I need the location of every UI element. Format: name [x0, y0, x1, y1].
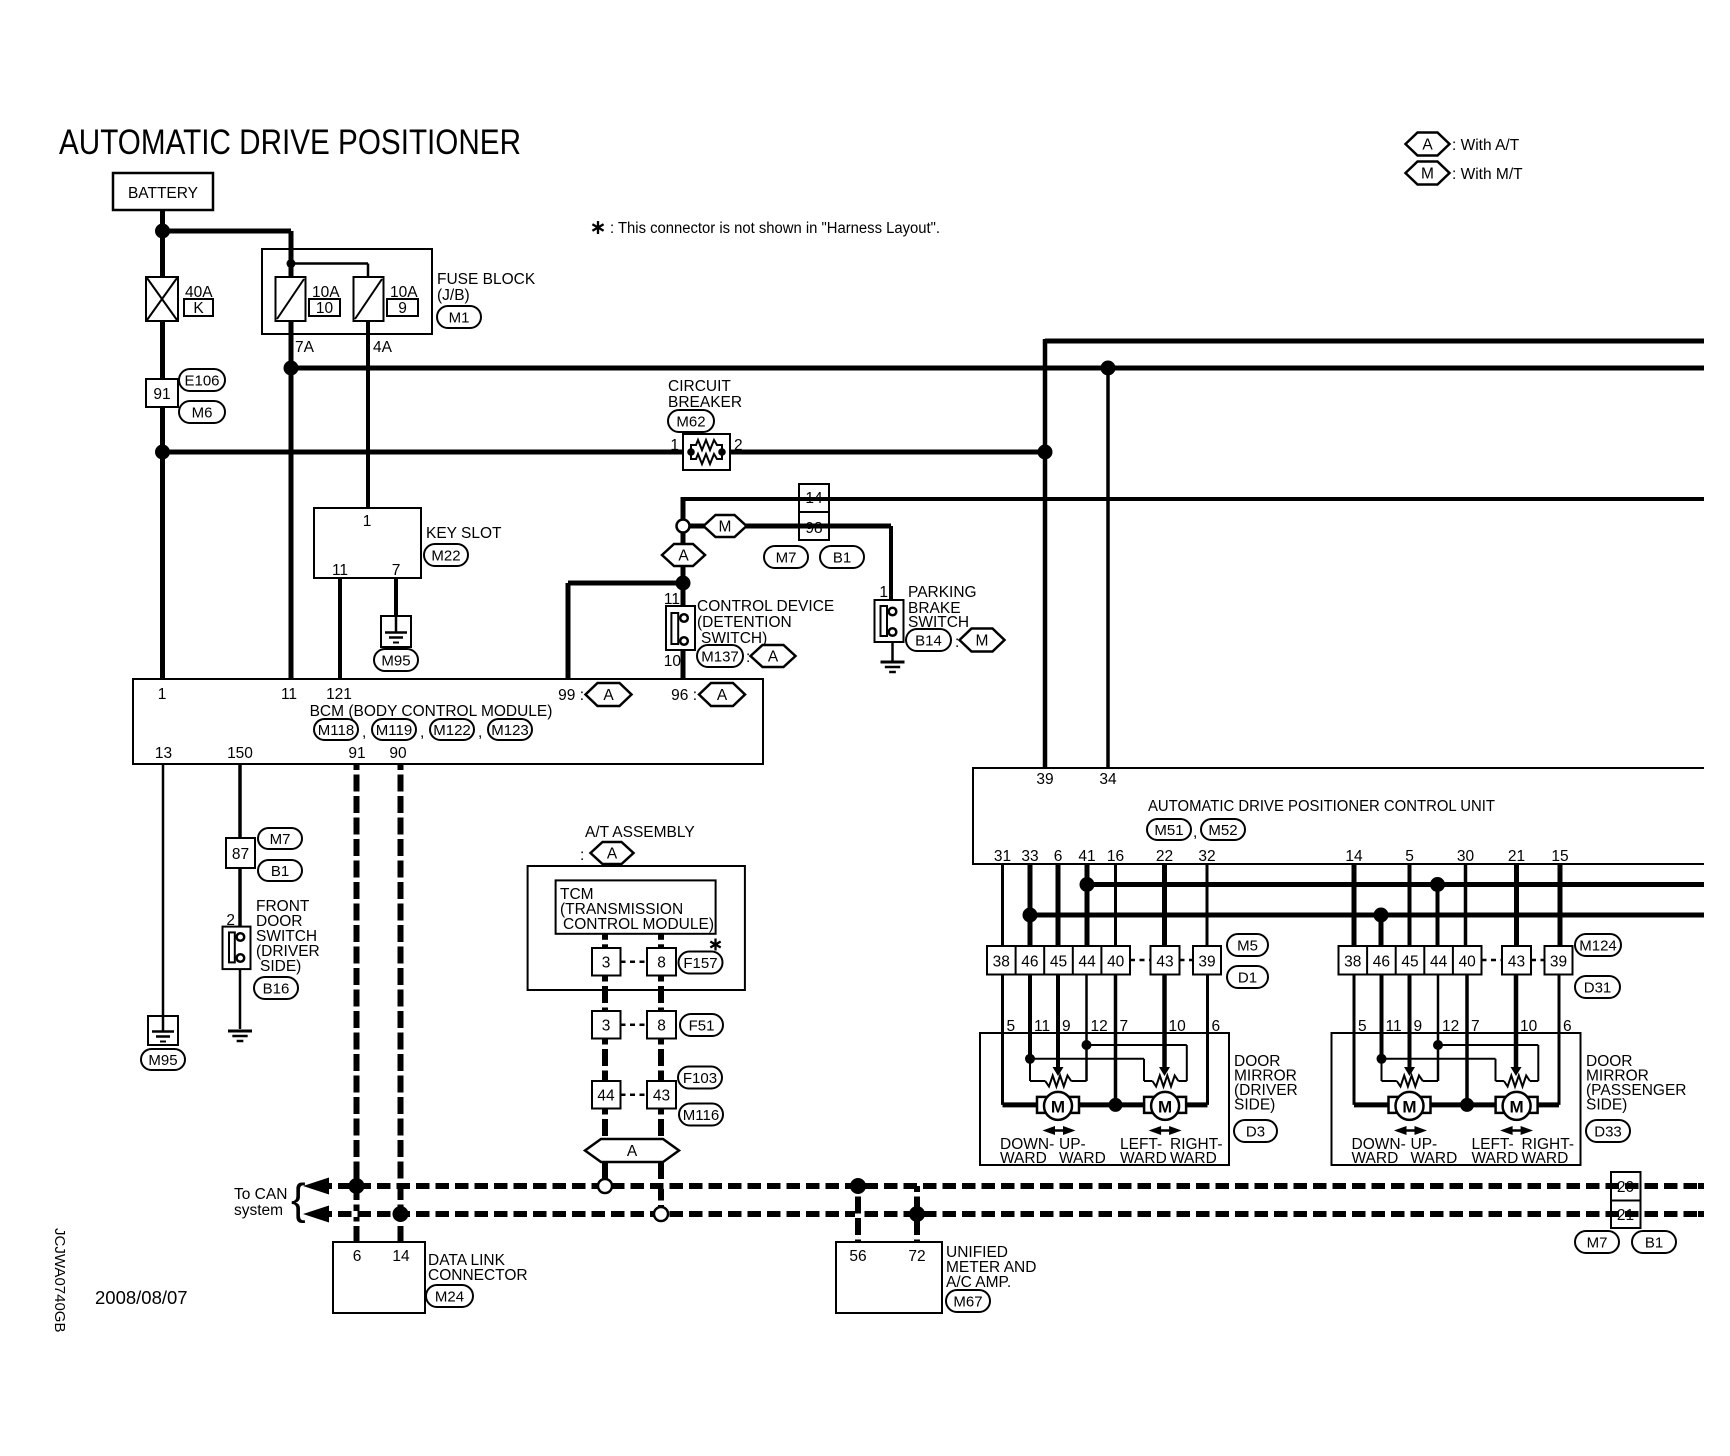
svg-text:21: 21	[1617, 1207, 1634, 1224]
svg-text:11: 11	[281, 686, 297, 703]
svg-text:M95: M95	[148, 1052, 177, 1069]
svg-text:CONNECTOR: CONNECTOR	[428, 1267, 528, 1284]
svg-text:,: ,	[478, 724, 482, 741]
svg-text:14: 14	[392, 1248, 410, 1265]
svg-text:A: A	[1422, 137, 1433, 154]
svg-text:38: 38	[1344, 954, 1361, 971]
svg-text:46: 46	[1373, 954, 1390, 971]
svg-text:M123: M123	[491, 722, 529, 739]
svg-text:41: 41	[1078, 848, 1095, 865]
svg-text:21: 21	[1508, 848, 1525, 865]
svg-text:M: M	[1158, 1097, 1172, 1116]
svg-text:1: 1	[879, 584, 888, 601]
svg-text:10: 10	[664, 653, 682, 670]
svg-text:13: 13	[155, 745, 172, 762]
svg-text:39: 39	[1036, 771, 1053, 788]
svg-text:1: 1	[670, 437, 679, 454]
svg-text:M: M	[976, 633, 989, 650]
svg-text:M: M	[1421, 166, 1434, 183]
svg-text:8: 8	[657, 1018, 666, 1035]
svg-text:7A: 7A	[295, 339, 315, 356]
svg-text:33: 33	[1021, 848, 1038, 865]
svg-text:D3: D3	[1246, 1123, 1265, 1140]
svg-text:40: 40	[1459, 954, 1477, 971]
svg-text:AUTOMATIC DRIVE POSITIONER CON: AUTOMATIC DRIVE POSITIONER CONTROL UNIT	[1148, 798, 1496, 815]
svg-text:M51: M51	[1154, 822, 1183, 839]
svg-text:9: 9	[398, 300, 407, 317]
svg-text:72: 72	[908, 1248, 925, 1265]
svg-text:31: 31	[994, 848, 1011, 865]
svg-text:BCM (BODY CONTROL MODULE): BCM (BODY CONTROL MODULE)	[310, 703, 553, 720]
svg-text:30: 30	[1457, 848, 1475, 865]
svg-text:22: 22	[1156, 848, 1173, 865]
svg-text:,: ,	[420, 724, 424, 741]
svg-text:6: 6	[1054, 848, 1063, 865]
svg-text:WARD: WARD	[1120, 1150, 1167, 1167]
svg-text:14: 14	[805, 490, 823, 507]
svg-text:M1: M1	[449, 309, 470, 326]
svg-text:2: 2	[734, 437, 743, 454]
svg-text:M7: M7	[270, 831, 291, 848]
svg-text:M6: M6	[192, 404, 213, 421]
svg-text:KEY SLOT: KEY SLOT	[426, 525, 502, 542]
svg-text:45: 45	[1050, 954, 1067, 971]
svg-text:M5: M5	[1237, 937, 1258, 954]
svg-text:M: M	[1051, 1097, 1065, 1116]
svg-text:44: 44	[1430, 954, 1448, 971]
svg-text:91: 91	[153, 386, 170, 403]
svg-text:: With A/T: : With A/T	[1452, 137, 1520, 154]
svg-text:B1: B1	[1645, 1234, 1663, 1251]
svg-text:To CAN: To CAN	[234, 1186, 287, 1203]
svg-text:WARD: WARD	[1000, 1150, 1047, 1167]
svg-text:: With M/T: : With M/T	[1452, 166, 1523, 183]
svg-text:1: 1	[158, 686, 167, 703]
svg-text:39: 39	[1198, 954, 1215, 971]
svg-text:,: ,	[362, 724, 366, 741]
svg-text:F103: F103	[683, 1070, 717, 1087]
svg-text:5: 5	[1405, 848, 1414, 865]
svg-text:8: 8	[657, 955, 666, 972]
svg-text:D1: D1	[1238, 969, 1257, 986]
svg-text:91: 91	[348, 745, 365, 762]
svg-text:M24: M24	[435, 1288, 464, 1305]
svg-text:AUTOMATIC DRIVE POSITIONER: AUTOMATIC DRIVE POSITIONER	[59, 122, 521, 162]
svg-text:M: M	[719, 519, 732, 536]
svg-text:38: 38	[993, 954, 1010, 971]
svg-text:FUSE BLOCK: FUSE BLOCK	[437, 271, 536, 288]
svg-text:CONTROL MODULE): CONTROL MODULE)	[563, 916, 714, 933]
svg-text:M116: M116	[683, 1107, 719, 1124]
svg-text:B14: B14	[915, 632, 942, 649]
svg-text:98: 98	[805, 520, 822, 537]
svg-text:34: 34	[1099, 771, 1117, 788]
svg-text:SIDE): SIDE)	[1586, 1097, 1627, 1114]
svg-text:WARD: WARD	[1352, 1150, 1399, 1167]
svg-text:15: 15	[1551, 848, 1568, 865]
svg-text:43: 43	[1156, 954, 1173, 971]
svg-text:43: 43	[653, 1088, 670, 1105]
svg-text:M119: M119	[376, 722, 412, 739]
svg-text:M62: M62	[676, 413, 705, 430]
svg-text:A: A	[678, 548, 689, 565]
svg-text:D31: D31	[1584, 979, 1612, 996]
svg-text::: :	[580, 847, 584, 864]
svg-text:M95: M95	[381, 652, 410, 669]
svg-text:46: 46	[1021, 954, 1038, 971]
svg-text:90: 90	[389, 745, 407, 762]
svg-text:WARD: WARD	[1522, 1150, 1569, 1167]
svg-text:A: A	[627, 1143, 638, 1160]
svg-text:SIDE): SIDE)	[260, 958, 301, 975]
svg-text:A: A	[607, 846, 618, 863]
svg-text:40: 40	[1107, 954, 1125, 971]
svg-text:A/C AMP.: A/C AMP.	[946, 1274, 1011, 1291]
svg-text:M: M	[1402, 1097, 1416, 1116]
svg-text:32: 32	[1198, 848, 1215, 865]
svg-text:WARD: WARD	[1170, 1150, 1217, 1167]
svg-text:PARKING: PARKING	[908, 584, 977, 601]
svg-text:A: A	[768, 649, 779, 666]
svg-text:K: K	[193, 300, 204, 317]
svg-text::: :	[746, 649, 750, 666]
svg-text:(J/B): (J/B)	[437, 287, 470, 304]
svg-text:(DETENTION: (DETENTION	[697, 614, 792, 631]
svg-text:10: 10	[316, 300, 334, 317]
svg-text:39: 39	[1550, 954, 1567, 971]
svg-text:M67: M67	[953, 1293, 982, 1310]
svg-text:44: 44	[1078, 954, 1096, 971]
svg-text:M7: M7	[776, 549, 797, 566]
svg-text:16: 16	[1107, 848, 1124, 865]
svg-text:7: 7	[392, 562, 401, 579]
svg-text:F157: F157	[683, 955, 717, 972]
svg-text:20: 20	[1617, 1179, 1635, 1196]
svg-text:M124: M124	[1579, 937, 1617, 954]
svg-text:56: 56	[849, 1248, 866, 1265]
svg-text:WARD: WARD	[1059, 1150, 1106, 1167]
svg-text:BREAKER: BREAKER	[668, 394, 742, 411]
svg-text:WARD: WARD	[1472, 1150, 1519, 1167]
svg-text:2008/08/07: 2008/08/07	[95, 1287, 188, 1308]
svg-text:M22: M22	[431, 547, 460, 564]
svg-text::: :	[955, 634, 959, 651]
svg-text:M7: M7	[1587, 1234, 1608, 1251]
svg-text:A/T ASSEMBLY: A/T ASSEMBLY	[585, 824, 695, 841]
svg-text:SIDE): SIDE)	[1234, 1097, 1275, 1114]
svg-text:150: 150	[227, 745, 253, 762]
svg-text:B1: B1	[271, 863, 289, 880]
svg-text:CONTROL DEVICE: CONTROL DEVICE	[697, 598, 834, 615]
svg-text:45: 45	[1401, 954, 1418, 971]
svg-text:A: A	[603, 687, 614, 704]
svg-text:6: 6	[353, 1248, 362, 1265]
svg-text:system: system	[234, 1202, 283, 1219]
svg-text:1: 1	[363, 513, 372, 530]
svg-text:B1: B1	[833, 549, 851, 566]
svg-text:96 :: 96 :	[671, 687, 697, 704]
svg-text:F51: F51	[689, 1017, 715, 1034]
svg-text:M52: M52	[1208, 822, 1237, 839]
svg-text:M137: M137	[701, 648, 739, 665]
svg-text:A: A	[717, 687, 728, 704]
svg-text:44: 44	[597, 1088, 615, 1105]
svg-text:3: 3	[602, 1018, 611, 1035]
svg-text:CIRCUIT: CIRCUIT	[668, 378, 731, 395]
svg-text:{: {	[291, 1175, 306, 1224]
svg-text:: This connector is not shown: : This connector is not shown in "Harnes…	[610, 220, 940, 237]
svg-text:B16: B16	[263, 980, 290, 997]
svg-text:M: M	[1510, 1097, 1524, 1116]
svg-text:3: 3	[602, 955, 611, 972]
svg-text:87: 87	[232, 846, 249, 863]
svg-text:D33: D33	[1594, 1123, 1622, 1140]
svg-text:43: 43	[1508, 954, 1525, 971]
svg-text:11: 11	[332, 562, 348, 579]
svg-text:4A: 4A	[373, 339, 393, 356]
svg-text:JCJWA0740GB: JCJWA0740GB	[51, 1228, 68, 1332]
svg-text:99 :: 99 :	[558, 687, 584, 704]
svg-text:121: 121	[326, 686, 352, 703]
svg-text:M122: M122	[433, 722, 471, 739]
svg-text:M118: M118	[318, 722, 354, 739]
svg-text:14: 14	[1345, 848, 1363, 865]
svg-text:BATTERY: BATTERY	[128, 185, 198, 202]
svg-text:,: ,	[1193, 824, 1197, 841]
svg-text:WARD: WARD	[1411, 1150, 1458, 1167]
svg-text:E106: E106	[184, 372, 219, 389]
